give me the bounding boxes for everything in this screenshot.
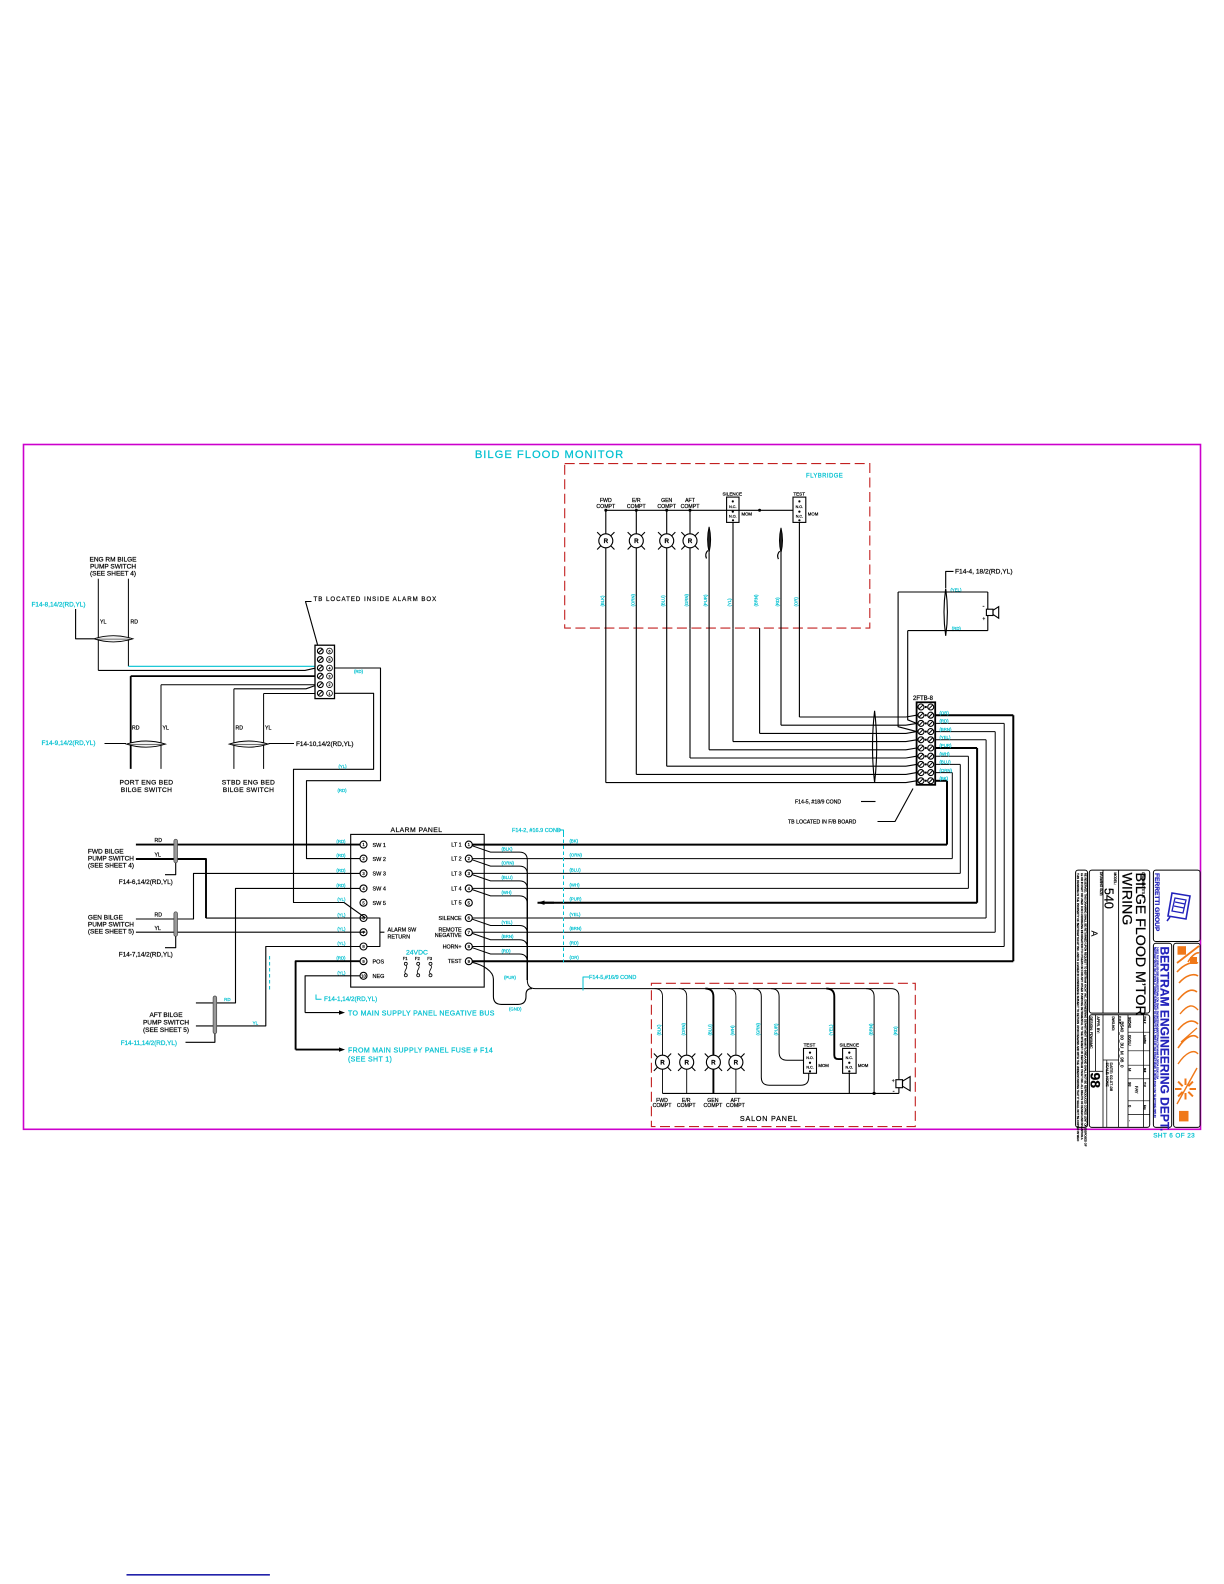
svg-text:(PUR): (PUR) bbox=[940, 743, 953, 748]
svg-text:NEGATIVE: NEGATIVE bbox=[435, 933, 462, 939]
svg-text:NEG: NEG bbox=[373, 974, 385, 980]
svg-text:(PUR): (PUR) bbox=[773, 1023, 778, 1036]
svg-text:YL: YL bbox=[265, 726, 271, 732]
svg-text:LT 2: LT 2 bbox=[451, 857, 461, 863]
svg-text:SALON PANEL: SALON PANEL bbox=[740, 1114, 798, 1123]
svg-text:R: R bbox=[660, 1060, 665, 1067]
svg-text:4: 4 bbox=[329, 667, 331, 671]
svg-text:RD: RD bbox=[236, 726, 244, 732]
svg-text:RD: RD bbox=[155, 912, 163, 918]
svg-text:DRAWING SIZE:: DRAWING SIZE: bbox=[1099, 872, 1103, 896]
svg-text:GEN BILGE: GEN BILGE bbox=[88, 914, 124, 921]
svg-text:(RD): (RD) bbox=[502, 948, 512, 953]
svg-text:(RD): (RD) bbox=[336, 853, 346, 858]
svg-text:3: 3 bbox=[329, 675, 331, 679]
svg-text:YL: YL bbox=[155, 853, 161, 859]
svg-text:(BLU): (BLU) bbox=[708, 1024, 713, 1036]
svg-text:F14-10,14/2(RD,YL): F14-10,14/2(RD,YL) bbox=[296, 741, 354, 748]
svg-text:LE OR IN PART OR USED FOR FURN: LE OR IN PART OR USED FOR FURNISHING INF… bbox=[1080, 873, 1084, 1140]
svg-text:00/3U: 00/3U bbox=[1128, 1035, 1133, 1046]
svg-text:F14-11,14/2(RD,YL): F14-11,14/2(RD,YL) bbox=[121, 1040, 177, 1047]
svg-text:(BLU): (BLU) bbox=[661, 595, 666, 607]
svg-text:AFT BILGE: AFT BILGE bbox=[149, 1012, 183, 1019]
svg-text:(GND): (GND) bbox=[509, 1006, 522, 1011]
svg-text:(WH): (WH) bbox=[940, 751, 951, 756]
svg-text:Eng: Eng bbox=[1143, 1105, 1147, 1110]
svg-text:(PUR): (PUR) bbox=[570, 897, 583, 902]
svg-text:RD: RD bbox=[155, 838, 163, 844]
svg-text:COMPT: COMPT bbox=[681, 504, 701, 510]
svg-text:(WH): (WH) bbox=[570, 882, 581, 887]
svg-text:BERTRAM ENGINEERING DEPT.: BERTRAM ENGINEERING DEPT. bbox=[1157, 947, 1171, 1132]
svg-text:R: R bbox=[604, 538, 609, 545]
svg-text:(YEL): (YEL) bbox=[502, 920, 514, 925]
svg-text:(BLU): (BLU) bbox=[502, 875, 514, 880]
svg-text:(YL): (YL) bbox=[339, 764, 348, 769]
svg-text:COMPT: COMPT bbox=[627, 504, 647, 510]
svg-text:RD: RD bbox=[224, 997, 231, 1002]
svg-text:2: 2 bbox=[329, 683, 331, 687]
svg-text:(BLK): (BLK) bbox=[502, 846, 514, 851]
svg-text:STBD ENG BED: STBD ENG BED bbox=[222, 780, 275, 787]
svg-text:LT 4: LT 4 bbox=[451, 886, 461, 892]
svg-text:ENG RM BILGE: ENG RM BILGE bbox=[90, 557, 138, 564]
svg-text:YL: YL bbox=[253, 1021, 259, 1026]
svg-text:F14-2, #16.9 COND: F14-2, #16.9 COND bbox=[512, 828, 561, 834]
svg-text:PUMP SWITCH: PUMP SWITCH bbox=[90, 564, 136, 571]
svg-text:SW 5: SW 5 bbox=[373, 901, 386, 907]
svg-text:N.C.: N.C. bbox=[729, 505, 736, 509]
svg-text:HORN+: HORN+ bbox=[443, 945, 462, 951]
svg-text:MOM: MOM bbox=[858, 1063, 869, 1068]
svg-text:F1: F1 bbox=[403, 956, 409, 961]
svg-text:(RD): (RD) bbox=[336, 868, 346, 873]
svg-text:FAY: FAY bbox=[1134, 1086, 1139, 1094]
svg-text:10: 10 bbox=[361, 973, 366, 978]
svg-text:SW 4: SW 4 bbox=[373, 887, 386, 893]
svg-text:+: + bbox=[892, 1079, 895, 1085]
svg-text:F14-1,14/2(RD,YL): F14-1,14/2(RD,YL) bbox=[324, 996, 377, 1003]
svg-text:TO MAIN SUPPLY PANEL NEGATIVE: TO MAIN SUPPLY PANEL NEGATIVE BUS bbox=[348, 1010, 495, 1017]
svg-text:(GRN): (GRN) bbox=[756, 1023, 761, 1036]
svg-text:FLYBRIDGE: FLYBRIDGE bbox=[806, 474, 843, 480]
svg-text:(BLK): (BLK) bbox=[600, 595, 605, 607]
svg-text:TEST: TEST bbox=[793, 491, 805, 496]
svg-text:-: - bbox=[983, 604, 985, 610]
svg-text:(RD): (RD) bbox=[354, 669, 364, 674]
svg-text:LT 5: LT 5 bbox=[451, 901, 461, 907]
svg-text:(YL): (YL) bbox=[337, 941, 346, 946]
svg-text:(YEL): (YEL) bbox=[829, 1024, 834, 1036]
svg-text:2FTB-8: 2FTB-8 bbox=[913, 696, 934, 702]
svg-text:F14-8,14/2(RD,YL): F14-8,14/2(RD,YL) bbox=[32, 602, 86, 609]
svg-text:YL: YL bbox=[155, 926, 161, 932]
svg-text:(RD): (RD) bbox=[336, 956, 346, 961]
svg-text:(BLU): (BLU) bbox=[940, 760, 952, 765]
svg-text:SILENCE: SILENCE bbox=[439, 916, 462, 922]
svg-text:R: R bbox=[664, 538, 669, 545]
svg-text:(SEE SHEET 5): (SEE SHEET 5) bbox=[143, 1027, 189, 1034]
svg-text:(SEE SHEET 5): (SEE SHEET 5) bbox=[88, 928, 134, 935]
svg-text:R: R bbox=[684, 1060, 689, 1067]
svg-text:SCALE: NONE: SCALE: NONE bbox=[1105, 1063, 1109, 1088]
svg-text:98: 98 bbox=[1088, 1073, 1104, 1089]
svg-text:TEST: TEST bbox=[804, 1043, 816, 1048]
svg-text:N.O.: N.O. bbox=[796, 505, 804, 509]
svg-text:B540_00_3U_M_98_0: B540_00_3U_M_98_0 bbox=[1120, 1022, 1125, 1068]
svg-text:TB LOCATED IN F/B BOARD: TB LOCATED IN F/B BOARD bbox=[788, 820, 856, 826]
svg-text:YL: YL bbox=[163, 726, 169, 732]
svg-text:SHT 6 OF 23: SHT 6 OF 23 bbox=[1153, 1132, 1195, 1139]
svg-text:F14-9,14/2(RD,YL): F14-9,14/2(RD,YL) bbox=[42, 740, 96, 747]
svg-text:+: + bbox=[982, 617, 985, 623]
svg-text:BILGE SWITCH: BILGE SWITCH bbox=[223, 787, 275, 794]
svg-text:Yr #: Yr # bbox=[1143, 1082, 1147, 1087]
svg-text:(ORN): (ORN) bbox=[502, 860, 515, 865]
svg-text:ALARM PANEL: ALARM PANEL bbox=[390, 827, 442, 834]
svg-text:(SEE SHT 1): (SEE SHT 1) bbox=[348, 1057, 392, 1064]
svg-text:COMPT: COMPT bbox=[726, 1103, 746, 1109]
svg-text:(YL): (YL) bbox=[337, 897, 346, 902]
svg-text:MOM: MOM bbox=[818, 1063, 829, 1068]
svg-text:-: - bbox=[893, 1089, 895, 1095]
svg-text:(BK): (BK) bbox=[570, 839, 579, 844]
svg-text:(WH): (WH) bbox=[730, 1025, 735, 1036]
svg-text:F14-5, #18/9 COND: F14-5, #18/9 COND bbox=[795, 800, 841, 806]
svg-text:TEST: TEST bbox=[448, 959, 462, 965]
svg-text:Proj #: Proj # bbox=[1143, 1017, 1147, 1024]
svg-text:DATE: 02-07-08: DATE: 02-07-08 bbox=[1109, 1063, 1114, 1092]
svg-text:POS: POS bbox=[373, 959, 385, 965]
svg-text:F14-4, 18/2(RD,YL): F14-4, 18/2(RD,YL) bbox=[955, 569, 1013, 576]
svg-text:RE RESERVED. THIS DRAWING SHAL: RE RESERVED. THIS DRAWING SHALL BE RETUR… bbox=[1084, 873, 1088, 1147]
svg-text:N.C.: N.C. bbox=[796, 514, 803, 518]
svg-text:PUMP SWITCH: PUMP SWITCH bbox=[88, 921, 134, 928]
svg-text:(PUR): (PUR) bbox=[703, 594, 708, 607]
svg-text:(YEL): (YEL) bbox=[570, 912, 582, 917]
svg-text:F14-7,14/2(RD,YL): F14-7,14/2(RD,YL) bbox=[119, 952, 173, 959]
svg-text:(BK): (BK) bbox=[940, 776, 949, 781]
svg-text:(WH): (WH) bbox=[502, 890, 513, 895]
svg-text:R: R bbox=[711, 1060, 716, 1067]
svg-text:(OR): (OR) bbox=[940, 710, 950, 715]
svg-text:98540: 98540 bbox=[1128, 1017, 1133, 1029]
svg-text:PORT ENG BED: PORT ENG BED bbox=[120, 780, 174, 787]
svg-text:RETURN: RETURN bbox=[388, 934, 411, 940]
svg-text:RD: RD bbox=[132, 726, 140, 732]
svg-text:PUMP SWITCH: PUMP SWITCH bbox=[88, 855, 134, 862]
svg-text:(OR): (OR) bbox=[793, 597, 798, 607]
svg-text:Len/Bm: Len/Bm bbox=[1143, 1035, 1147, 1044]
svg-text:PUMP SWITCH: PUMP SWITCH bbox=[143, 1019, 189, 1026]
svg-text:R: R bbox=[734, 1060, 739, 1067]
svg-text:(GRN): (GRN) bbox=[684, 594, 689, 607]
svg-text:A: A bbox=[1090, 931, 1100, 937]
svg-text:(ORN): (ORN) bbox=[940, 768, 953, 773]
svg-text:(YL): (YL) bbox=[727, 598, 732, 607]
svg-text:LT 1: LT 1 bbox=[451, 843, 461, 849]
svg-text:N.C.: N.C. bbox=[846, 1056, 853, 1060]
svg-text:(SEE SHEET 4): (SEE SHEET 4) bbox=[90, 571, 136, 578]
svg-text:(YL): (YL) bbox=[337, 970, 346, 975]
svg-text:N.C.: N.C. bbox=[806, 1066, 813, 1070]
svg-text:N.O.: N.O. bbox=[729, 514, 737, 518]
svg-text:(BRN): (BRN) bbox=[570, 926, 583, 931]
svg-text:FROM MAIN SUPPLY PANEL FUSE #: FROM MAIN SUPPLY PANEL FUSE # F14 bbox=[348, 1047, 493, 1054]
svg-text:COMPT: COMPT bbox=[596, 504, 616, 510]
svg-text:RD: RD bbox=[131, 620, 139, 626]
svg-text:COMPT: COMPT bbox=[653, 1103, 673, 1109]
svg-text:F14-5,#16/9 COND: F14-5,#16/9 COND bbox=[589, 975, 636, 981]
svg-text:SW 3: SW 3 bbox=[373, 872, 386, 878]
svg-text:DWG.NO:: DWG.NO: bbox=[1111, 1017, 1115, 1031]
svg-text:Mdl: Mdl bbox=[1143, 1068, 1147, 1073]
svg-text:1: 1 bbox=[329, 692, 331, 696]
svg-text:(BRN): (BRN) bbox=[754, 594, 759, 607]
svg-text:MOM: MOM bbox=[742, 512, 753, 517]
svg-text:F14-6,14/2(RD,YL): F14-6,14/2(RD,YL) bbox=[119, 879, 173, 886]
svg-text:APPR. BY:: APPR. BY: bbox=[1096, 1017, 1100, 1034]
svg-text:FWD BILGE: FWD BILGE bbox=[88, 848, 124, 855]
svg-text:M: M bbox=[1128, 1068, 1133, 1071]
svg-text:SW 2: SW 2 bbox=[373, 857, 386, 863]
svg-text:(BRN): (BRN) bbox=[868, 1023, 873, 1036]
svg-text:(RD): (RD) bbox=[336, 839, 346, 844]
svg-text:YL: YL bbox=[100, 620, 106, 626]
svg-text:98: 98 bbox=[1128, 1082, 1133, 1087]
svg-text:(PUR): (PUR) bbox=[504, 975, 517, 980]
svg-text:(RD): (RD) bbox=[336, 883, 346, 888]
svg-text:(BRN): (BRN) bbox=[940, 727, 953, 732]
svg-text:TB LOCATED INSIDE ALARM BOX: TB LOCATED INSIDE ALARM BOX bbox=[314, 596, 438, 603]
svg-text:(OR): (OR) bbox=[570, 955, 580, 960]
svg-text:WIRING: WIRING bbox=[1119, 873, 1135, 926]
svg-text:LT 3: LT 3 bbox=[451, 871, 461, 877]
svg-text:(ORN): (ORN) bbox=[681, 1023, 686, 1036]
svg-text:(RD): (RD) bbox=[775, 597, 780, 607]
svg-text:SW 1: SW 1 bbox=[373, 843, 386, 849]
svg-text:(YL): (YL) bbox=[337, 927, 346, 932]
svg-text:6: 6 bbox=[329, 650, 331, 654]
svg-text:MODEL:: MODEL: bbox=[1113, 873, 1117, 885]
svg-text:5: 5 bbox=[329, 658, 331, 662]
svg-text:(ORN): (ORN) bbox=[570, 853, 583, 858]
svg-text:N.O.: N.O. bbox=[806, 1056, 814, 1060]
svg-text:R: R bbox=[634, 538, 639, 545]
svg-text:(ORN): (ORN) bbox=[630, 594, 635, 607]
svg-text:COMPT: COMPT bbox=[677, 1103, 697, 1109]
svg-text:(RD): (RD) bbox=[570, 941, 580, 946]
svg-text:F2: F2 bbox=[415, 956, 421, 961]
svg-text:(BLK): (BLK) bbox=[657, 1024, 662, 1036]
svg-text:(BRN): (BRN) bbox=[502, 934, 515, 939]
svg-text:(SEE SHEET 4): (SEE SHEET 4) bbox=[88, 862, 134, 869]
svg-text:SILENCE: SILENCE bbox=[839, 1043, 859, 1048]
svg-text:SILENCE: SILENCE bbox=[722, 491, 742, 496]
svg-text:(RD): (RD) bbox=[338, 788, 348, 793]
svg-text:BILGE SWITCH: BILGE SWITCH bbox=[121, 787, 173, 794]
svg-text:F3: F3 bbox=[427, 956, 433, 961]
svg-text:BILGE FLOOD MONITOR: BILGE FLOOD MONITOR bbox=[475, 449, 624, 461]
svg-text:MOM: MOM bbox=[808, 512, 819, 517]
svg-text:COMPT: COMPT bbox=[657, 504, 677, 510]
svg-text:THIS DRAWING IS THE PROPERTY O: THIS DRAWING IS THE PROPERTY OF BERTRAM … bbox=[1076, 873, 1080, 1141]
svg-text:ALARM SW: ALARM SW bbox=[388, 927, 418, 933]
svg-text:(RD): (RD) bbox=[940, 719, 950, 724]
svg-text:DESIGN: FDW/AMC: DESIGN: FDW/AMC bbox=[1089, 1017, 1093, 1050]
svg-text:COMPT: COMPT bbox=[704, 1103, 724, 1109]
svg-text:N.O.: N.O. bbox=[846, 1066, 854, 1070]
svg-text:(YEL): (YEL) bbox=[940, 735, 952, 740]
svg-text:(RD): (RD) bbox=[893, 1026, 898, 1036]
svg-text:FERRETTI GROUP: FERRETTI GROUP bbox=[1153, 873, 1160, 932]
svg-text:R: R bbox=[688, 538, 693, 545]
svg-text:(YL): (YL) bbox=[337, 913, 346, 918]
svg-text:(BLU): (BLU) bbox=[570, 867, 582, 872]
